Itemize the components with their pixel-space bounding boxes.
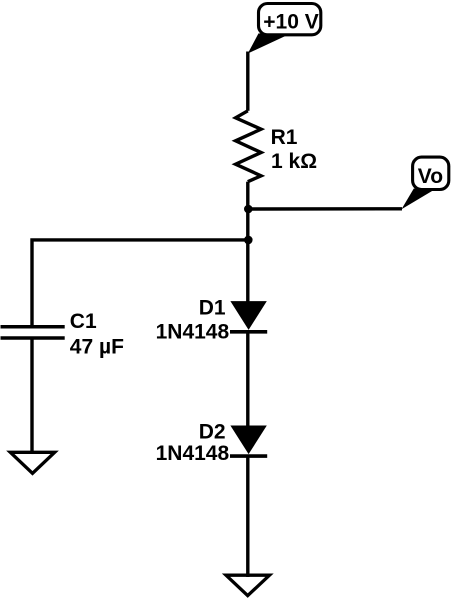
- node C1 junction dot: [244, 236, 253, 245]
- wire from junction to capacitor C1 branch: [32, 240, 248, 325]
- wire from node Vo junction to Vo label: [248, 207, 402, 211]
- svg-text:1 kΩ: 1 kΩ: [271, 150, 317, 173]
- wire from junction to diode D1: [246, 240, 249, 303]
- svg-text:+10 V: +10 V: [263, 11, 318, 34]
- svg-text:D1: D1: [199, 296, 226, 319]
- svg-text:C1: C1: [70, 310, 97, 333]
- wire from diode D2 to ground: [246, 456, 249, 577]
- wire from capacitor C1 to ground: [30, 338, 33, 452]
- Vo label box: [413, 157, 449, 189]
- svg-text:1N4148: 1N4148: [156, 442, 230, 465]
- svg-text:47 µF: 47 µF: [70, 335, 124, 358]
- ground symbol bottom: [226, 575, 270, 595]
- resistor R1: [236, 111, 262, 182]
- wire from +10 V to resistor R1: [246, 52, 249, 111]
- diode D2 triangle: [231, 426, 266, 453]
- wire from resistor R1 to node Vo junction: [246, 182, 249, 241]
- node Vo junction dot: [244, 205, 253, 214]
- ground symbol left: [10, 452, 54, 473]
- svg-text:1N4148: 1N4148: [156, 321, 230, 344]
- power label +10 V box: [259, 4, 321, 35]
- diode D1 triangle: [231, 302, 266, 329]
- diode D2 cathode bar: [230, 454, 267, 458]
- wire from diode D1 to diode D2: [246, 332, 249, 427]
- capacitor C1 top plate: [1, 325, 65, 329]
- Vo label tail: [402, 189, 433, 210]
- svg-text:D2: D2: [199, 421, 226, 444]
- diode D1 cathode bar: [230, 330, 267, 334]
- svg-text:R1: R1: [271, 126, 298, 149]
- power label tail: [248, 33, 287, 53]
- svg-text:Vo: Vo: [418, 165, 443, 188]
- capacitor C1 bottom plate: [1, 336, 65, 340]
